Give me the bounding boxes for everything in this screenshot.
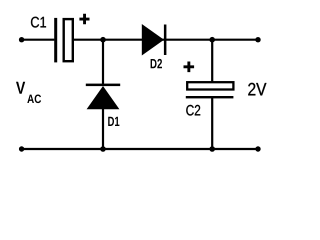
- junction node B: D2 / C2 / output: [209, 37, 215, 43]
- node: AC input top terminal: [19, 37, 24, 42]
- polarity + for C1: [79, 14, 89, 25]
- capacitor C2 top plate (hollow rectangle, positive): [187, 82, 233, 89]
- wire: bottom bus from input terminal to output terminal: [22, 148, 258, 150]
- diode D2 cathode bar: [164, 25, 167, 56]
- junction node A: C1 / D1 / D2: [100, 37, 106, 43]
- diode D1 triangle (anode, pointing up): [87, 86, 120, 109]
- node: output bottom terminal: [255, 146, 260, 151]
- wire: D1 branch upper (node A down to D1 cathode bar): [102, 40, 104, 85]
- label VAC (input voltage): [16, 82, 25, 94]
- capacitor C1 right plate (hollow rectangle): [64, 19, 73, 61]
- diode D1 cathode bar: [86, 84, 120, 87]
- wire: top segment from C1 right plate through D2 to output terminal: [74, 39, 258, 41]
- label D1: [108, 117, 119, 126]
- junction node: C2 negative on bottom bus: [209, 146, 215, 152]
- wire: C2 branch lower (bottom plate down to bottom bus): [211, 98, 213, 149]
- wire: D1 branch lower (triangle base down to bottom bus): [102, 108, 104, 149]
- polarity + for C2: [184, 62, 195, 73]
- node: AC input bottom terminal: [19, 146, 24, 151]
- junction node: D1 anode on bottom bus: [100, 146, 106, 152]
- diode D2 triangle (anode, pointing right): [142, 24, 164, 56]
- label C2: [186, 105, 200, 116]
- label 2V output: [248, 83, 266, 96]
- capacitor C2 bottom plate (solid): [186, 96, 234, 98]
- label D2: [151, 59, 162, 68]
- label C1: [31, 17, 46, 28]
- wire: C2 branch upper (node B down to C2 top plate): [211, 40, 213, 82]
- capacitor C1 left plate (solid): [54, 18, 57, 63]
- node: output top terminal: [255, 37, 260, 42]
- wire: top-left segment from input terminal to C1 left plate: [22, 39, 55, 41]
